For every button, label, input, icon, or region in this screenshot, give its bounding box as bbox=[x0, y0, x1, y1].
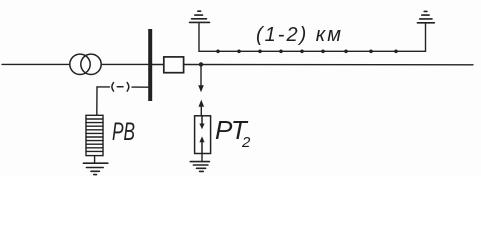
wire: busbar to breaker bbox=[152, 64, 164, 66]
spark gap: up arrow to arrester RT2 bbox=[199, 100, 205, 116]
ground (below RV) bbox=[83, 163, 107, 174]
transformer T1 (two overlapping circles) bbox=[70, 54, 101, 74]
breaker V (square box) bbox=[164, 57, 184, 73]
removable link ( - ) symbol bbox=[112, 83, 129, 92]
wire: left riser of overhead line bbox=[199, 24, 426, 52]
wire: bus from transformer to busbar bbox=[101, 63, 148, 65]
wire: breaker to right edge through node bbox=[184, 64, 473, 66]
ground (top left, inverted) bbox=[190, 11, 210, 22]
svg-text:2: 2 bbox=[241, 134, 251, 151]
arrester RT2 (rectangle with opposed arrows) bbox=[195, 116, 211, 154]
ground (top right, inverted) bbox=[417, 11, 434, 22]
wire: RT2 to ground bbox=[201, 154, 203, 162]
svg-text:(1-2) км: (1-2) км bbox=[256, 24, 343, 46]
arrester RV (hatched rectangle) bbox=[86, 115, 103, 155]
node: junction dot on bus bbox=[199, 62, 203, 66]
wire: branch from busbar to removable link bbox=[132, 86, 148, 88]
spark gap: down arrow from node bbox=[198, 64, 204, 92]
overhead line conductor dots bbox=[216, 50, 398, 54]
wire: main bus line left of transformer bbox=[2, 63, 70, 65]
wire: RV to ground bbox=[94, 156, 96, 163]
svg-text:РВ: РВ bbox=[112, 118, 135, 146]
wire: elbow down to arrester RV bbox=[96, 87, 98, 115]
ground (below RT2) bbox=[190, 162, 209, 172]
busbar (thick vertical bar) bbox=[148, 29, 152, 101]
